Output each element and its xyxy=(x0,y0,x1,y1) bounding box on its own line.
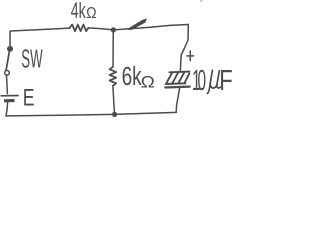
capacitor C1 bottom plate xyxy=(165,85,189,88)
svg-text:Ω: Ω xyxy=(86,5,96,22)
capacitor C1 hatched plate (top) xyxy=(166,72,190,84)
wire bottom xyxy=(6,112,176,116)
node B dot (bottom junction) xyxy=(112,112,117,117)
wire switch to battery xyxy=(6,76,9,94)
switch S2 blade (top right) xyxy=(127,19,146,30)
wire middle branch upper xyxy=(112,30,114,67)
wire battery to bottom xyxy=(6,102,8,116)
svg-text:4k: 4k xyxy=(71,0,86,23)
wire top-left vertical xyxy=(10,28,70,46)
wire top middle xyxy=(88,28,113,30)
resistor R2 6k zigzag xyxy=(110,67,117,86)
capacitor polarity plus sign xyxy=(187,51,194,61)
label 10uF mu glyph xyxy=(207,70,220,93)
svg-text:E: E xyxy=(23,85,35,111)
svg-text:Ω: Ω xyxy=(141,72,155,91)
wire middle branch lower xyxy=(113,86,115,115)
battery E long plate xyxy=(1,95,18,97)
switch SW blade xyxy=(6,52,9,70)
scan speck xyxy=(200,0,203,2)
wire right vertical xyxy=(180,25,188,72)
svg-text:0: 0 xyxy=(198,64,207,96)
wire bottom-right vertical xyxy=(176,88,179,112)
switch SW terminal dot xyxy=(7,46,13,52)
battery E short thick plate xyxy=(4,99,15,103)
svg-text:SW: SW xyxy=(21,46,43,74)
node A dot (top junction) xyxy=(111,27,116,32)
switch SW open terminal circle xyxy=(5,71,10,76)
svg-text:F: F xyxy=(219,65,232,97)
wire top right to corner xyxy=(113,25,188,30)
resistor R1 4k zigzag xyxy=(70,25,89,32)
svg-text:6k: 6k xyxy=(122,61,143,91)
